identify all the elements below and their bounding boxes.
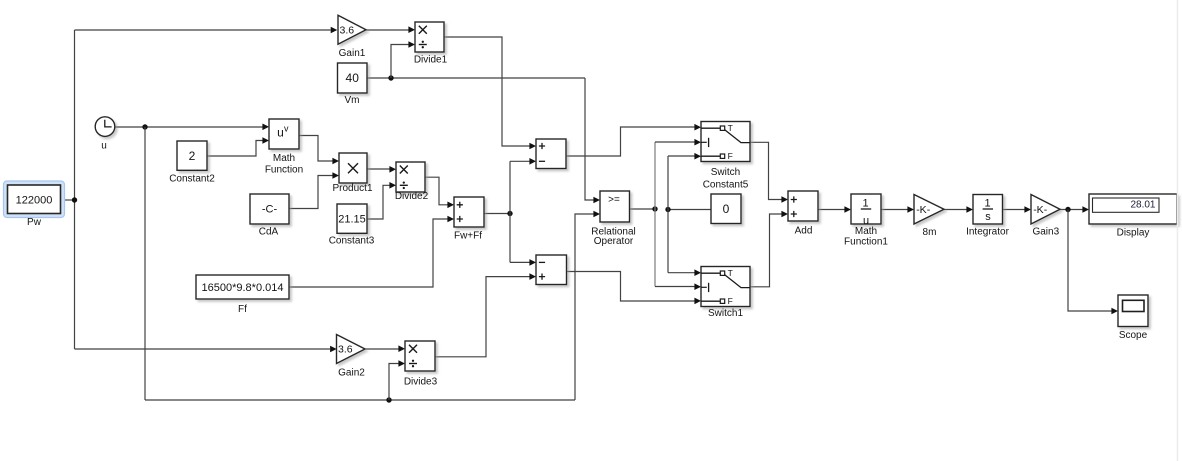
- wire Constant5 output: [668, 209, 711, 211]
- constant CdA value -C-: [250, 194, 289, 238]
- arrowhead into Switch1 in3: [694, 298, 701, 305]
- arrowhead into Sum1 plus: [529, 143, 536, 150]
- arrowhead into Scope: [1111, 308, 1118, 315]
- wire Integrator to Gain3: [1003, 209, 1025, 211]
- wire Gain1 to Divide1: [366, 29, 409, 31]
- arrowhead into Math Function1: [844, 206, 851, 213]
- clock u: [95, 117, 115, 152]
- svg-text:v: v: [284, 123, 289, 133]
- svg-text:-K-: -K-: [916, 204, 931, 216]
- sum block Fw+Ff: [454, 197, 484, 242]
- arrowhead into Display: [1082, 206, 1089, 213]
- arrowhead into Divide1 in2: [408, 41, 415, 48]
- svg-text:Constant2: Constant2: [169, 173, 215, 184]
- arrowhead into Sum1 minus: [529, 158, 536, 165]
- svg-text:Ff: Ff: [238, 304, 247, 315]
- sum block Sum1 plus minus: [536, 139, 566, 169]
- svg-text:2: 2: [189, 149, 196, 163]
- display Display value 28.01: [1089, 194, 1177, 239]
- svg-text:122000: 122000: [16, 195, 53, 207]
- svg-text:Display: Display: [1117, 228, 1150, 239]
- wire Gain2 to Divide3 in1: [366, 348, 399, 350]
- arrowhead into Gain3: [1024, 206, 1031, 213]
- wire zero to Switch1 T input: [668, 272, 695, 274]
- svg-text:16500*9.8*0.014: 16500*9.8*0.014: [202, 282, 284, 294]
- constant Ff value 16500*9.8*0.014: [196, 275, 289, 315]
- svg-text:Add: Add: [795, 225, 813, 236]
- constant Constant3 value 21.15: [329, 204, 375, 247]
- arrowhead into Add in2: [781, 211, 788, 218]
- arrowhead into Product1 in1: [332, 158, 339, 165]
- arrowhead into Sum2 plus: [529, 273, 536, 280]
- svg-text:0: 0: [723, 202, 730, 216]
- wire node to Scope: [1068, 210, 1112, 312]
- svg-text:F: F: [728, 151, 733, 161]
- wire Gain3 to Display: [1060, 209, 1083, 211]
- arrowhead into Switch1 in2: [694, 283, 701, 290]
- block Divide3: [404, 341, 438, 388]
- arrowhead into Gain1: [331, 27, 338, 34]
- wire Constant2 to Math Function in2: [207, 141, 263, 157]
- svg-text:CdA: CdA: [259, 227, 279, 238]
- svg-text:Gain2: Gain2: [338, 367, 365, 378]
- svg-text:T: T: [728, 268, 733, 278]
- arrowhead into 8m: [907, 206, 914, 213]
- svg-text:>=: >=: [608, 195, 620, 206]
- svg-text:3.6: 3.6: [338, 344, 353, 356]
- block Relational Operator >=: [591, 191, 635, 247]
- svg-text:Function1: Function1: [844, 237, 888, 248]
- gain 8m value -K-: [914, 195, 944, 238]
- gain Gain3 value -K-: [1031, 195, 1060, 238]
- wire control to Switch1 in2: [655, 286, 695, 288]
- arrowhead into Divide1 in1: [408, 26, 415, 33]
- svg-text:s: s: [985, 211, 991, 223]
- wire Sum1 to Switch T input: [566, 127, 695, 156]
- svg-text:Divide2: Divide2: [395, 191, 429, 202]
- svg-text:1: 1: [862, 198, 868, 210]
- wire u vertical rail: [144, 127, 146, 400]
- junction control node: [652, 206, 657, 211]
- svg-text:u: u: [277, 125, 284, 139]
- switch Switch: [701, 122, 750, 179]
- constant Pw (selected) value 122000: [4, 181, 65, 228]
- arrowhead into Integrator: [966, 206, 973, 213]
- svg-text:u: u: [101, 141, 107, 152]
- wire bottom bus u: [145, 399, 575, 401]
- wire FwFf output: [484, 213, 510, 215]
- svg-text:T: T: [728, 123, 733, 133]
- arrowhead into Gain2: [330, 346, 337, 353]
- sum block Sum2 minus plus: [536, 255, 567, 285]
- junction Gain3 node: [1065, 207, 1070, 212]
- wire FwFf to Sum1 minus: [510, 160, 530, 162]
- wire Divide1 to Sum1 plus: [444, 37, 530, 146]
- arrowhead into Switch in2: [694, 139, 701, 146]
- svg-text:-K-: -K-: [1033, 204, 1048, 216]
- wire Constant3 to Divide2 in2: [367, 185, 390, 219]
- arrowhead into Divide3 in1: [398, 345, 405, 352]
- junction Vm node: [388, 75, 393, 80]
- svg-text:Integrator: Integrator: [966, 227, 1009, 238]
- svg-text:Scope: Scope: [1119, 330, 1148, 341]
- svg-text:Constant3: Constant3: [329, 236, 375, 247]
- wire Pw output: [61, 199, 75, 201]
- wire Math Function to Product1 in1: [299, 136, 333, 162]
- arrowhead into Divide3 in2: [398, 360, 405, 367]
- wire Ff to FwFf in2: [289, 219, 448, 287]
- svg-text:8m: 8m: [923, 227, 937, 238]
- svg-text:Switch1: Switch1: [708, 308, 743, 319]
- canvas edge line: [1177, 0, 1179, 461]
- svg-text:Vm: Vm: [345, 95, 360, 106]
- constant Constant5 value 0 (flipped): [711, 194, 741, 224]
- wire Divide2 to FwFf in1: [425, 177, 448, 205]
- constant Constant2 value 2: [169, 141, 215, 184]
- wire control vertical rail: [654, 142, 656, 287]
- junction zero node: [665, 207, 670, 212]
- block Product1 multiply: [332, 153, 372, 194]
- wire zero vertical rail: [667, 156, 669, 273]
- arrowhead into Switch in3: [694, 153, 701, 160]
- svg-text:Gain3: Gain3: [1032, 227, 1059, 238]
- junction bottom bus: [386, 397, 391, 402]
- arrowhead into Relational Operator in1: [593, 197, 600, 204]
- block Divide2: [395, 162, 429, 202]
- junction Pw rail: [72, 197, 77, 202]
- wire bus to Divide3 in2: [389, 364, 399, 401]
- switch Switch1: [701, 267, 750, 319]
- svg-text:28.01: 28.01: [1130, 200, 1155, 211]
- wire zero to Switch F input: [668, 155, 695, 157]
- wire Switch to Add in1: [750, 142, 782, 199]
- wire Relational Operator output: [630, 208, 656, 210]
- arrowhead into Math Function in2: [262, 137, 269, 144]
- svg-text:Divide1: Divide1: [414, 54, 448, 65]
- arrowhead into Sum2 minus: [529, 259, 536, 266]
- junction FwFf node: [507, 211, 512, 216]
- wire control to Switch in2: [655, 141, 695, 143]
- arrowhead into Relational Operator in2: [593, 211, 600, 218]
- svg-text:F: F: [728, 296, 733, 306]
- wire CdA to Product1 in2: [289, 176, 333, 209]
- wire Math Function1 to 8m: [881, 209, 908, 211]
- wire to Gain1: [75, 29, 331, 31]
- junction clock node u: [142, 124, 147, 129]
- wire FwFf vertical rail: [509, 161, 511, 262]
- arrowhead into Divide2 in1: [389, 166, 396, 173]
- block Math Function u^v: [265, 119, 303, 176]
- svg-text:-C-: -C-: [262, 204, 278, 216]
- wire FwFf to Sum2 minus: [510, 261, 530, 263]
- wire bus to Relational Operator in2: [575, 214, 594, 400]
- arrowhead into Switch1 in1: [694, 269, 701, 276]
- block Integrator 1/s: [966, 195, 1009, 238]
- svg-text:u: u: [863, 215, 869, 227]
- svg-text:Switch: Switch: [711, 167, 740, 178]
- gain Gain2 value 3.6: [337, 335, 366, 379]
- wire Clock to Math Function: [115, 126, 263, 128]
- arrowhead into FwFf in2: [447, 216, 454, 223]
- wire Switch1 to Add in2: [750, 214, 782, 287]
- svg-text:Function: Function: [265, 165, 303, 176]
- arrowhead into Math Function in1: [262, 124, 269, 131]
- wire Vm to Divide1 in2: [391, 45, 409, 79]
- arrowhead into Switch in1: [694, 124, 701, 131]
- wire Vm output: [367, 77, 585, 79]
- svg-text:Operator: Operator: [594, 236, 634, 247]
- sum block Add: [788, 191, 818, 236]
- svg-text:Fw+Ff: Fw+Ff: [454, 231, 482, 242]
- svg-text:Math: Math: [273, 153, 295, 164]
- block Math Function1 1/u: [844, 194, 888, 248]
- wire Divide3 to Sum2 plus: [435, 277, 530, 357]
- scope Scope: [1118, 295, 1148, 341]
- constant Vm value 40: [338, 63, 368, 106]
- wire Sum2 to Switch1 F input: [567, 272, 695, 302]
- wire 8m to Integrator: [944, 209, 967, 211]
- gain Gain1 value 3.6: [338, 15, 366, 59]
- wire left vertical rail: [74, 30, 76, 349]
- block Divide1: [414, 22, 448, 65]
- svg-text:40: 40: [346, 71, 360, 85]
- svg-text:Divide3: Divide3: [404, 377, 438, 388]
- svg-text:21.15: 21.15: [338, 214, 366, 226]
- arrowhead into Add in1: [781, 196, 788, 203]
- arrowhead into Product1 in2: [332, 172, 339, 179]
- svg-text:Product1: Product1: [332, 183, 372, 194]
- wire Vm to Relational Operator in1: [585, 78, 594, 200]
- arrowhead into Divide2 in2: [389, 182, 396, 189]
- svg-text:Gain1: Gain1: [339, 48, 366, 59]
- svg-text:Math: Math: [855, 226, 877, 237]
- wire rail to Gain2: [75, 348, 331, 350]
- svg-text:1: 1: [985, 198, 991, 210]
- svg-text:Pw: Pw: [27, 217, 42, 228]
- svg-text:3.6: 3.6: [340, 24, 355, 36]
- wire Product1 to Divide2 in1: [367, 168, 390, 170]
- wire Add to Math Function1: [818, 209, 845, 211]
- svg-text:Constant5: Constant5: [703, 179, 749, 190]
- arrowhead into FwFf in1: [447, 202, 454, 209]
